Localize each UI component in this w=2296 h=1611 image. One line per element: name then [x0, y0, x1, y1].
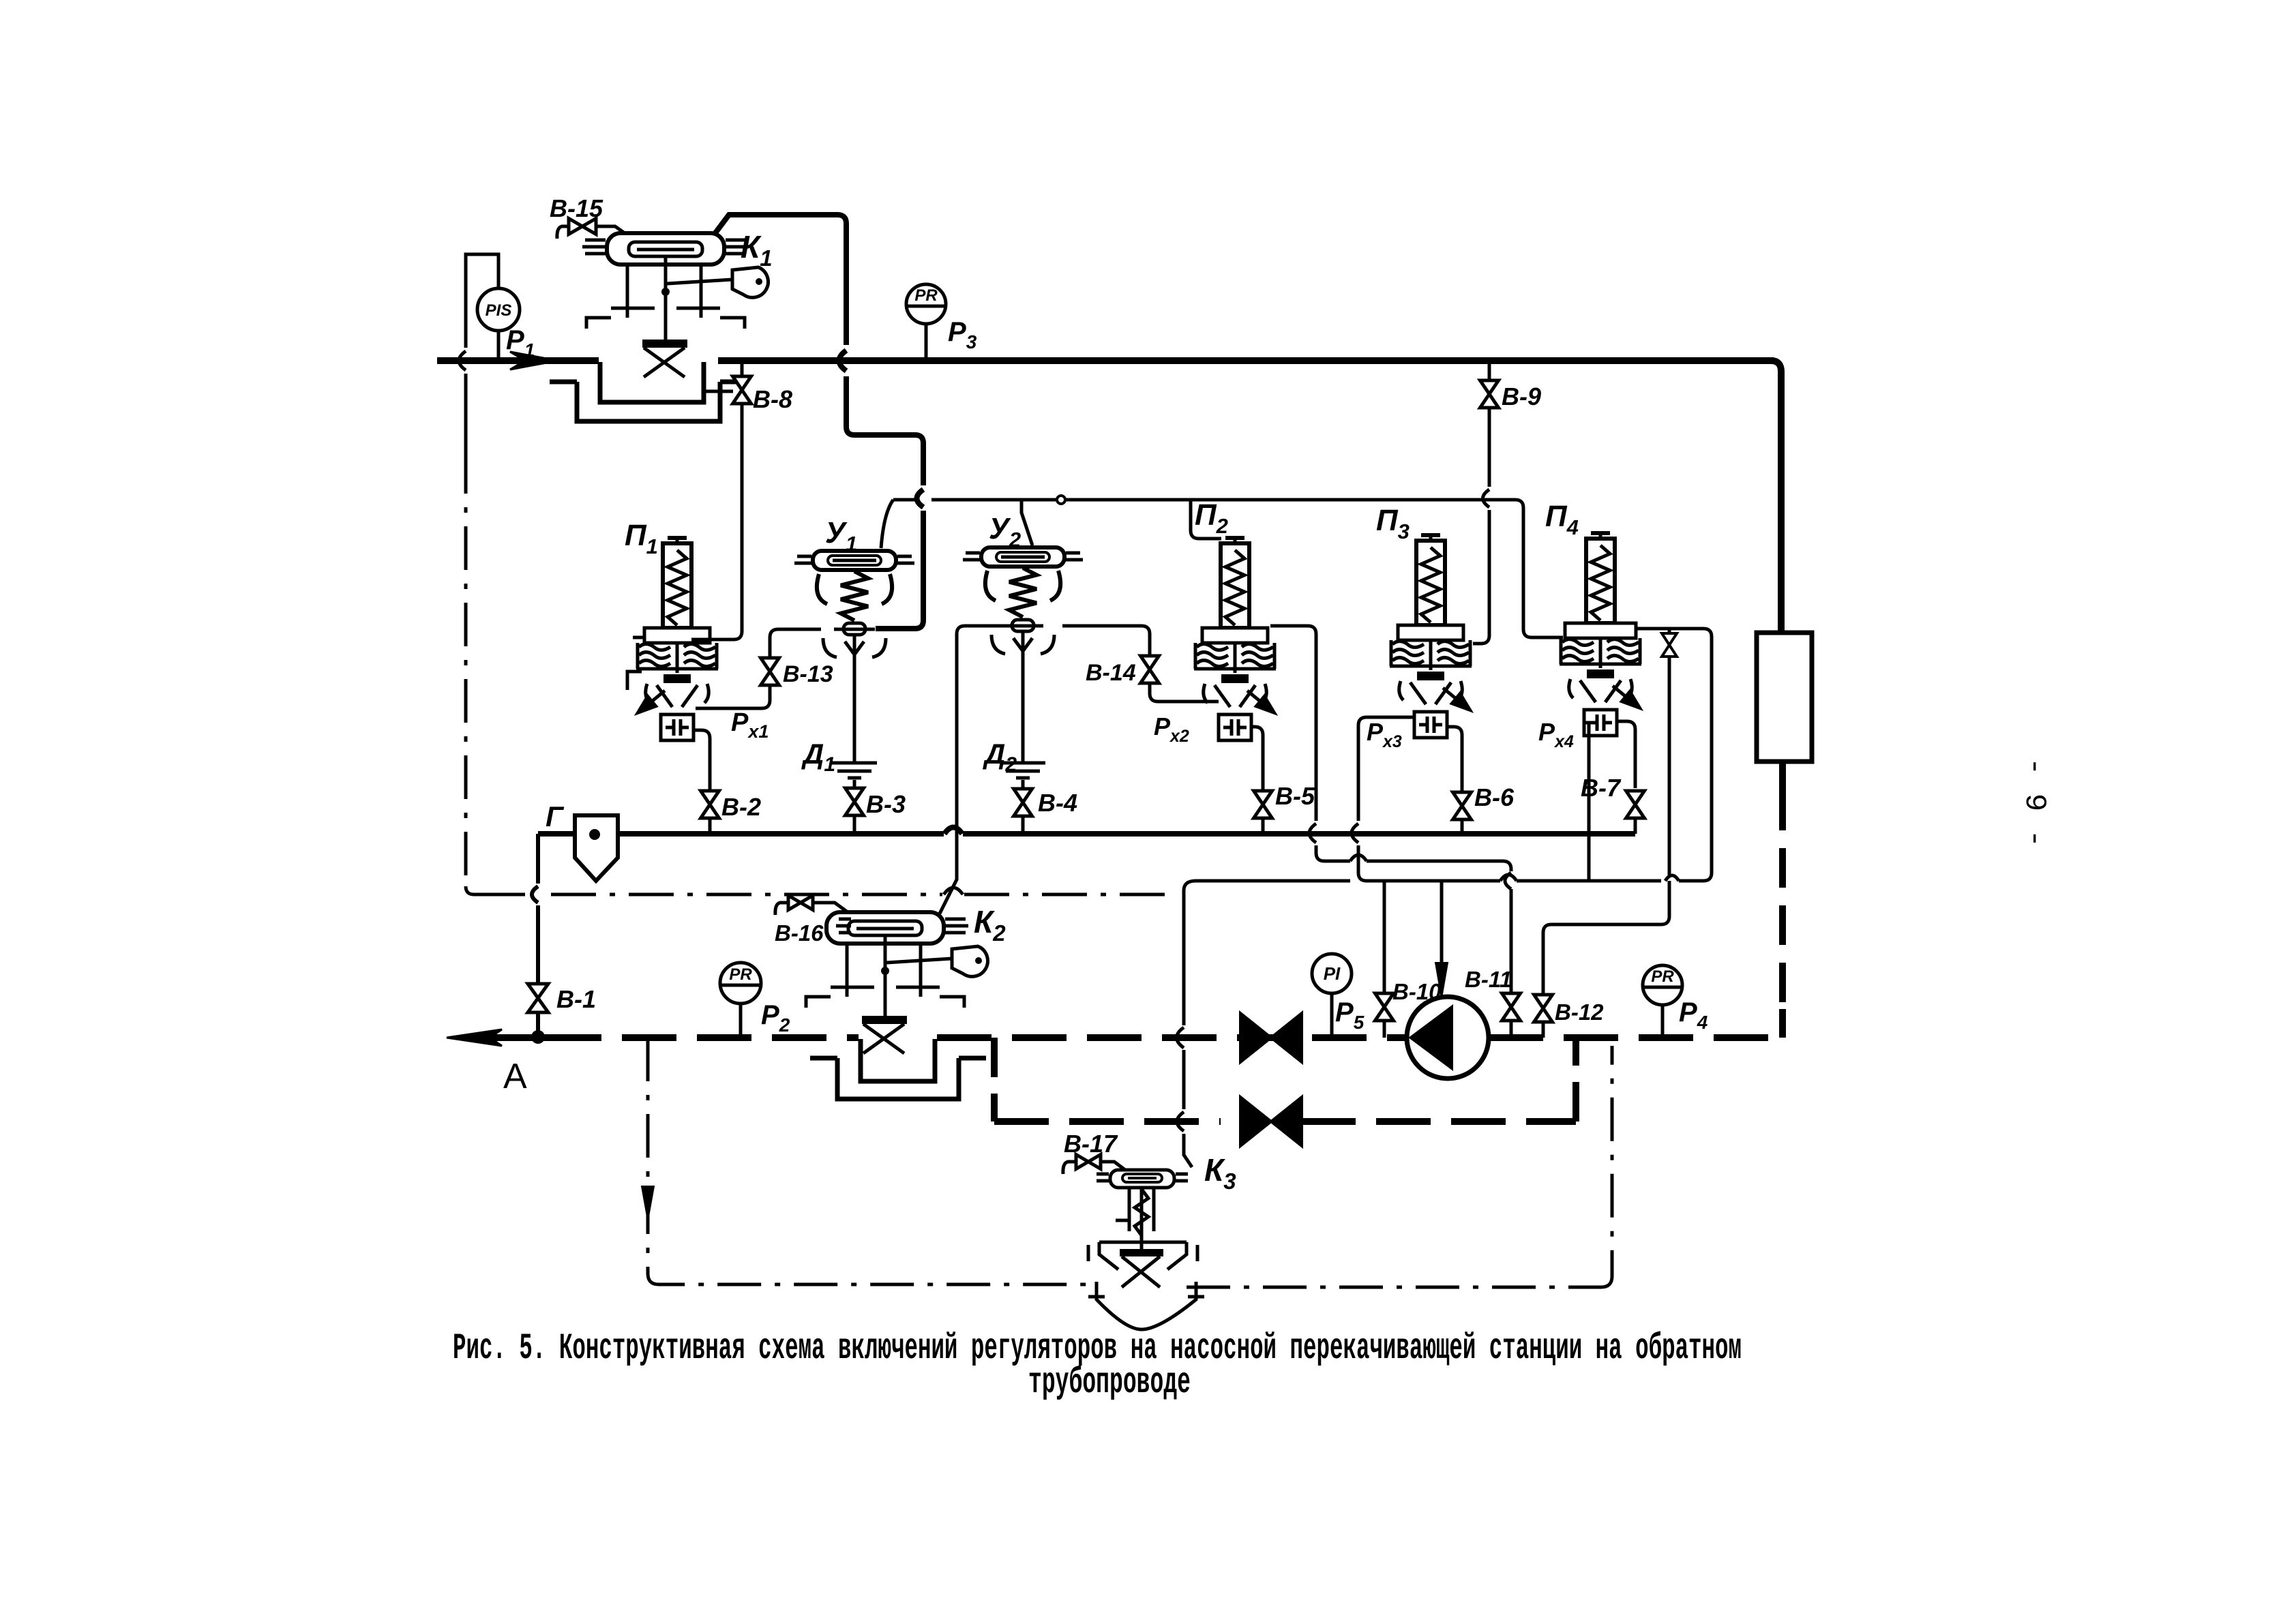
flow arrow on inlet pipe [510, 352, 558, 370]
wire: B-9 down to P3 regulator [1473, 408, 1489, 644]
wire: L2 to B-12 loop [1543, 881, 1669, 994]
lever of K2 [886, 946, 987, 976]
svg-text:А: А [503, 1057, 527, 1096]
valve B-16 hook [775, 903, 788, 915]
regulator P1 (direct-acting) [635, 538, 718, 740]
svg-text:В-2: В-2 [721, 793, 761, 821]
valve body of K2 in pipe [862, 1016, 907, 1053]
wire: K1 bypass loop under valve [550, 362, 747, 421]
svg-text:В-5: В-5 [1275, 782, 1315, 810]
wire: return pipe dashed segment 1 [547, 1034, 859, 1041]
label P4 [1679, 997, 1708, 1033]
label Px2 [1154, 712, 1189, 746]
svg-text:В-16: В-16 [775, 920, 824, 946]
regulator K1 actuator housing [582, 233, 749, 265]
wire: B-2 to manifold [709, 818, 712, 834]
wire: dash-dot station boundary line [474, 888, 1172, 894]
filter G (shield) [575, 815, 618, 881]
label D1 [801, 738, 835, 776]
wire: left boundary dash-dot down [466, 450, 525, 894]
wire: B-13 link P1 to U1 [696, 629, 821, 708]
wire: D2 to B-4 [1022, 780, 1025, 789]
valve B-10 [1375, 993, 1394, 1021]
valve body of K3 [1120, 1249, 1163, 1287]
capacitor D1 (damper) [832, 763, 877, 778]
wire: P2 right side to line L1 [1270, 626, 1511, 993]
flow arrow on drain line [642, 1186, 654, 1220]
wire: top pipe right corner down to surge tank [1771, 361, 1781, 633]
regulator U2 [963, 547, 1083, 654]
valve B-17 hook [1063, 1162, 1076, 1174]
svg-text:В-4: В-4 [1038, 789, 1077, 817]
wire: impulse branch to U2 [1022, 500, 1032, 545]
wire: U2 output to K2 [940, 626, 1008, 914]
svg-text:В-11: В-11 [1465, 967, 1512, 992]
svg-text:В-6: В-6 [1474, 783, 1515, 811]
wire: main inlet pipe (top header) [437, 357, 1774, 364]
caption line 2 [1028, 1362, 1191, 1404]
valve B-4 [1014, 789, 1032, 816]
junction node A [531, 1030, 545, 1044]
label Px1 [731, 708, 769, 742]
label D2 [983, 738, 1017, 776]
wire: B-3 to manifold [853, 815, 856, 834]
wire: K3 spring neck [1116, 1188, 1154, 1235]
wire: P4 output to B-7 [1617, 721, 1635, 788]
label K1 [741, 229, 773, 271]
valve B-6 [1453, 792, 1472, 819]
svg-text:В-13: В-13 [783, 661, 833, 687]
label B-15 [550, 194, 603, 222]
wire: B-9 riser from pipe [1488, 361, 1491, 380]
wire: P3 output to B-6 [1447, 727, 1462, 792]
valve B-16 [788, 896, 813, 910]
valve B-15 [569, 219, 596, 235]
regulator P3 (direct-acting) [1390, 535, 1473, 738]
label B-11 [1465, 967, 1512, 992]
surge vessel (rectangle) on right riser [1757, 633, 1812, 762]
node on impulse header [1057, 496, 1065, 504]
wire: signal manifold (thick) [538, 828, 1635, 834]
capacitor D2 (damper) [1000, 763, 1045, 778]
wire: B-4 to manifold [1022, 816, 1025, 834]
wire: K2 bypass loop under valve [810, 1039, 986, 1099]
label A [503, 1057, 527, 1096]
label B-12 [1555, 999, 1604, 1025]
svg-text:Г: Г [546, 800, 565, 832]
wire: B-7 to manifold [1634, 818, 1637, 834]
label U2 [989, 512, 1021, 552]
svg-text:В-15: В-15 [550, 194, 603, 222]
wire: U1 stem to D1 [853, 634, 856, 762]
wire: P4 box drop to L2 [1584, 723, 1589, 881]
regulator U1 [794, 551, 914, 657]
label P3-reg [1376, 504, 1410, 543]
wire: K3 yoke [1088, 1188, 1197, 1269]
wire: dash-dot drain line right part [1187, 1046, 1612, 1287]
label P3 [948, 317, 977, 352]
wire: PIS stem to pipe [497, 331, 501, 361]
wire: U2 right side to B-14 [1062, 626, 1150, 656]
pressure gauge PIS [477, 288, 520, 331]
label B-5 [1275, 782, 1315, 810]
label B-1 [556, 985, 596, 1013]
label B-8 [753, 385, 792, 413]
svg-text:PIS: PIS [486, 301, 512, 320]
valve B-15 hook [557, 226, 570, 239]
label B-9 [1502, 382, 1541, 410]
valve B-17 [1076, 1155, 1101, 1169]
svg-text:В-12: В-12 [1555, 999, 1604, 1025]
valve B-5 [1254, 791, 1272, 818]
wire: P1 left loop [627, 637, 644, 690]
pressure gauge PI (P5) [1312, 954, 1352, 993]
wire: return pipe dashed segment 2 [937, 1034, 1407, 1041]
wire: B-16 to K2 housing [813, 903, 852, 916]
label P1-reg [625, 519, 658, 558]
valve B-13 [761, 658, 779, 685]
wire: upper impulse header [893, 500, 1563, 637]
regulator P4 (direct-acting) [1560, 533, 1643, 736]
label Px4 [1538, 718, 1574, 751]
wire: B-15 to K1 housing [595, 226, 631, 238]
valve B-14 [1141, 656, 1159, 683]
pressure gauge PR (P4) [1643, 965, 1682, 1005]
label B-16 [775, 920, 824, 946]
svg-text:- 9 -: - 9 - [2017, 757, 2051, 847]
wire: B-11 to pipe [1510, 1021, 1513, 1038]
wire: K2 stem [881, 935, 889, 1017]
label P5 [1335, 997, 1365, 1033]
wire: B-12 to pipe [1542, 1023, 1545, 1038]
label P4-reg [1545, 500, 1579, 539]
label B-10 [1392, 979, 1442, 1004]
label Px3 [1367, 718, 1402, 751]
wire: P2 stem [739, 1004, 743, 1038]
wire: dash-dot drain line down [648, 1038, 1099, 1284]
valve B-12 [1534, 995, 1553, 1022]
valve B-7 [1626, 791, 1645, 818]
wire: aux valve risers [1668, 629, 1671, 877]
wire: K2 yoke frame [806, 944, 964, 1008]
svg-text:В-17: В-17 [1064, 1130, 1118, 1158]
wire: U2 stem to D2 [1022, 631, 1025, 762]
label P2 [761, 1000, 790, 1036]
regulator K3 actuator [1097, 1170, 1188, 1188]
wire: K3 outlet basket [1088, 1282, 1204, 1329]
svg-text:PR: PR [729, 965, 752, 984]
wire: P1 right side from B-8 [691, 638, 712, 642]
wire: P2 output to B-5 [1251, 727, 1263, 791]
wire: B-10 drop [1383, 881, 1386, 993]
wire: K1 yoke frame [586, 265, 745, 329]
wire: return pipe dashed segment 3 [1489, 1034, 1783, 1041]
label B-3 [866, 790, 906, 818]
wire: impulse line L2 [1196, 875, 1703, 881]
wire: K1 stem [661, 256, 670, 341]
svg-text:PI: PI [1324, 963, 1341, 984]
wire: manifold left corner to B-1 [532, 834, 538, 984]
wire: B-10 to suction pipe [1383, 1021, 1386, 1038]
wire: P3 stem [925, 324, 928, 361]
label P1 [506, 325, 535, 361]
label K3 [1204, 1152, 1236, 1194]
label G [546, 800, 565, 832]
svg-text:В-3: В-3 [866, 790, 906, 818]
wire: B-8 riser [702, 361, 742, 391]
valve B-8 [733, 376, 751, 404]
regulator P2 (direct-acting) [1194, 538, 1277, 740]
valve body of K1 in pipe [642, 340, 687, 377]
wire: B-14 to P2 chamber [1150, 683, 1219, 702]
pressure gauge PR (P2) [720, 963, 761, 1004]
wire: B-5 to manifold [1262, 818, 1265, 834]
gate valve (black) on bypass [1240, 1097, 1302, 1146]
label B-14 [1086, 660, 1136, 686]
svg-text:PR: PR [914, 286, 938, 305]
svg-text:В-14: В-14 [1086, 660, 1136, 686]
wire: P1 output to B-2 [694, 730, 710, 791]
label B-17 [1064, 1130, 1118, 1158]
wire: P4 right side link [1636, 629, 1712, 881]
wire: P5 stem [1330, 993, 1334, 1038]
wire: return pipe left with arrow [447, 1029, 547, 1046]
regulator K2 actuator housing [826, 912, 968, 944]
wire: B-6 to manifold [1461, 819, 1464, 834]
valve aux of P4 [1662, 633, 1677, 657]
page number [2017, 757, 2051, 847]
label B-7 [1581, 774, 1622, 802]
label B-4 [1038, 789, 1077, 817]
svg-text:трубопроводе: трубопроводе [1028, 1362, 1191, 1404]
wire: pump feed with arrow [1435, 881, 1448, 998]
label U1 [825, 516, 857, 556]
wire: PIS impulse loop at left [459, 254, 498, 450]
wire: P4 gauge stem [1661, 1005, 1665, 1038]
wire: impulse branch to U1 [881, 500, 893, 548]
valve B-11 [1502, 993, 1521, 1021]
pump (circle with triangle) [1407, 997, 1489, 1079]
valve B-3 [846, 788, 864, 815]
caption line 1 [453, 1328, 1742, 1370]
label B-13 [783, 661, 833, 687]
lever of K1 [667, 267, 768, 297]
label K2 [974, 904, 1006, 946]
wire: P3 box left to line L2 [1352, 717, 1414, 881]
label B-2 [721, 793, 761, 821]
svg-text:В-9: В-9 [1502, 382, 1541, 410]
wire: return pipe right corner up [1779, 1009, 1786, 1038]
svg-text:В-7: В-7 [1581, 774, 1622, 802]
wire: impulse branch to P2 regulator [1191, 500, 1221, 539]
wire: pump bypass dashed line [994, 1038, 1576, 1121]
wire: B-1 to pipe junction [536, 1012, 540, 1036]
svg-text:PR: PR [1651, 967, 1674, 986]
label P2-reg [1195, 498, 1228, 538]
wire: B-8 down to P1 regulator [712, 404, 742, 639]
valve B-9 [1480, 380, 1499, 408]
valve B-1 [528, 984, 548, 1012]
pressure gauge PR (P3) [906, 284, 946, 324]
wire: thick link K1 outlet loop to U1 [715, 215, 923, 629]
wire: K3 feed riser [1177, 881, 1197, 1167]
wire: D1 to B-3 [853, 780, 856, 788]
gate valve (black) on return pipe [1240, 1013, 1302, 1062]
svg-text:В-8: В-8 [753, 385, 792, 413]
valve B-2 [701, 791, 719, 818]
wire: dashed riser below vessel to return pipe [1779, 762, 1786, 1038]
label B-6 [1474, 783, 1515, 811]
wire: B-17 to K3 [1101, 1162, 1125, 1170]
svg-text:В-1: В-1 [556, 985, 596, 1013]
